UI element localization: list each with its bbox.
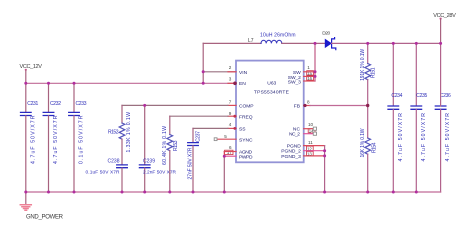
svg-text:NC_2: NC_2 bbox=[289, 132, 300, 138]
svg-text:C232: C232 bbox=[50, 101, 61, 107]
svg-text:PWPD: PWPD bbox=[239, 154, 253, 160]
pin stub COMP bbox=[228, 104, 236, 106]
svg-text:5: 5 bbox=[224, 134, 227, 139]
resistor R152 bbox=[108, 105, 132, 164]
svg-text:C233: C233 bbox=[76, 101, 87, 107]
capacitor C237 bbox=[188, 128, 202, 192]
wire SW to top rail bbox=[314, 43, 316, 81]
svg-text:R153: R153 bbox=[173, 140, 179, 151]
svg-text:L7: L7 bbox=[248, 38, 254, 44]
svg-text:27nF 50V X7R: 27nF 50V X7R bbox=[188, 147, 194, 179]
wire ground rail bbox=[26, 191, 441, 193]
wire FREQ run bbox=[170, 115, 228, 117]
svg-text:R151: R151 bbox=[371, 67, 377, 78]
svg-text:C238: C238 bbox=[108, 158, 120, 164]
pin 12 boxed bbox=[306, 146, 313, 151]
svg-text:TPS55340RTE: TPS55340RTE bbox=[254, 89, 290, 95]
svg-text:SS: SS bbox=[239, 126, 246, 132]
ground GND_POWER bbox=[20, 192, 63, 220]
wire COMP run bbox=[122, 104, 228, 106]
svg-text:U63: U63 bbox=[267, 81, 276, 87]
wire top rail between inductor and diode bbox=[282, 42, 325, 44]
pin stubs PGND bracket bbox=[304, 145, 325, 147]
svg-text:1.33K 1% 0.1W: 1.33K 1% 0.1W bbox=[126, 112, 132, 153]
node dot EN pin bbox=[233, 82, 237, 86]
svg-text:3: 3 bbox=[229, 77, 232, 82]
resistor R151 bbox=[360, 43, 377, 105]
pin 16 boxed bbox=[307, 76, 314, 81]
pin stub EN bbox=[228, 82, 236, 84]
pin stub FREQ bbox=[228, 115, 236, 117]
capacitor C231 bbox=[21, 83, 39, 192]
resistor R154 bbox=[360, 106, 378, 193]
svg-text:4.7uF 50V/X7R: 4.7uF 50V/X7R bbox=[421, 113, 427, 162]
IC U63 TPS55340RTE body bbox=[236, 61, 304, 163]
svg-text:C236: C236 bbox=[440, 93, 451, 99]
svg-text:4.7uF 50V/X7R: 4.7uF 50V/X7R bbox=[445, 113, 451, 162]
pin 17 boxed bbox=[225, 150, 233, 155]
svg-text:10: 10 bbox=[308, 122, 314, 127]
wire VIN branch bbox=[203, 71, 235, 73]
svg-text:C237: C237 bbox=[195, 131, 201, 142]
svg-text:60.4K 1% 0.1W: 60.4K 1% 0.1W bbox=[162, 126, 168, 165]
wire SS run bbox=[193, 127, 228, 129]
pin 13 boxed bbox=[306, 151, 313, 156]
svg-text:FB: FB bbox=[294, 103, 300, 109]
svg-text:D20: D20 bbox=[322, 30, 330, 36]
capacitor C232 bbox=[43, 83, 61, 192]
pin stub NC_2 with no-connect bbox=[304, 133, 314, 135]
svg-text:1: 1 bbox=[307, 65, 310, 70]
pin stub VIN bbox=[228, 71, 236, 73]
svg-text:VIN: VIN bbox=[239, 70, 248, 76]
svg-text:0.1uF 50V/X7R: 0.1uF 50V/X7R bbox=[79, 115, 85, 164]
wire PGND to ground rail bbox=[324, 146, 326, 192]
svg-text:C235: C235 bbox=[416, 93, 427, 99]
svg-text:C234: C234 bbox=[391, 93, 402, 99]
capacitor C239 bbox=[139, 105, 176, 192]
diode D20 (schottky) bbox=[325, 38, 336, 50]
power flag VCC_12V bbox=[20, 64, 43, 83]
svg-text:SW: SW bbox=[293, 70, 301, 76]
svg-text:7: 7 bbox=[229, 100, 232, 105]
capacitor C236 bbox=[435, 93, 451, 192]
capacitor C233 bbox=[69, 83, 87, 192]
svg-text:10uH 26mOhm: 10uH 26mOhm bbox=[260, 33, 296, 39]
capacitor C235 bbox=[411, 43, 428, 192]
svg-text:COMP: COMP bbox=[239, 103, 254, 109]
svg-text:PGND_2: PGND_2 bbox=[281, 149, 301, 155]
svg-text:9: 9 bbox=[229, 111, 232, 116]
svg-text:2.2nF 50V X7R: 2.2nF 50V X7R bbox=[143, 170, 177, 176]
svg-text:8: 8 bbox=[307, 100, 310, 105]
resistor R153 bbox=[162, 116, 179, 192]
svg-text:0.1uF 50V X7R: 0.1uF 50V X7R bbox=[86, 170, 121, 176]
pin numbers right bbox=[307, 65, 314, 145]
node dot FB pin bbox=[303, 104, 306, 107]
pin 14 boxed bbox=[308, 129, 315, 134]
wire top rail left of inductor bbox=[203, 42, 261, 44]
pin stub SYNC with no-connect bbox=[217, 138, 236, 140]
pin numbers left bbox=[224, 65, 232, 150]
capacitor C234 bbox=[388, 43, 404, 192]
svg-text:16K 1% 0.1W: 16K 1% 0.1W bbox=[360, 128, 366, 157]
svg-text:R154: R154 bbox=[372, 142, 378, 153]
pin stub SS bbox=[228, 127, 236, 129]
capacitor C238 bbox=[86, 158, 128, 192]
pin stub FB bbox=[304, 105, 310, 107]
power flag VCC_28V bbox=[433, 13, 456, 44]
pin stubs SW bracket bbox=[304, 71, 315, 73]
svg-text:EN: EN bbox=[239, 81, 246, 87]
pin 15 boxed bbox=[307, 71, 314, 76]
svg-text:4.7uF 50V/X7R: 4.7uF 50V/X7R bbox=[53, 115, 59, 164]
inductor L7 bbox=[261, 40, 282, 43]
svg-text:VCC_28V: VCC_28V bbox=[433, 13, 456, 19]
svg-text:NC: NC bbox=[293, 126, 301, 132]
node dot FB divider bbox=[366, 104, 369, 107]
svg-text:2: 2 bbox=[229, 65, 232, 70]
svg-text:C239: C239 bbox=[143, 158, 155, 164]
pin stub NC with no-connect bbox=[304, 128, 314, 130]
svg-text:4.7uF 50V/X7R: 4.7uF 50V/X7R bbox=[30, 115, 36, 164]
wire vertical feed to top rail bbox=[202, 43, 204, 83]
wire top rail right of diode bbox=[332, 42, 441, 44]
svg-text:SYNC: SYNC bbox=[239, 137, 253, 143]
svg-text:VCC_12V: VCC_12V bbox=[20, 64, 43, 70]
wire AGND to ground rail bbox=[223, 156, 225, 192]
svg-text:4.7uF 50V/X7R: 4.7uF 50V/X7R bbox=[398, 113, 404, 162]
svg-text:PGND_3: PGND_3 bbox=[281, 154, 301, 160]
pin stub AGND / PWPD bracket bbox=[224, 151, 236, 153]
svg-text:6: 6 bbox=[229, 145, 232, 150]
svg-text:191K 1% 0.1W: 191K 1% 0.1W bbox=[360, 49, 366, 81]
node dot SS pin bbox=[233, 127, 236, 130]
wire FB to divider bbox=[310, 105, 368, 107]
svg-text:SW_3: SW_3 bbox=[288, 80, 301, 86]
svg-text:4: 4 bbox=[229, 122, 232, 127]
svg-text:C231: C231 bbox=[27, 101, 38, 107]
svg-text:GND_POWER: GND_POWER bbox=[26, 214, 64, 220]
svg-text:PGND: PGND bbox=[287, 143, 301, 149]
svg-text:FREQ: FREQ bbox=[239, 114, 253, 120]
node dot FREQ pin bbox=[233, 115, 236, 118]
svg-text:11: 11 bbox=[308, 140, 313, 145]
svg-text:R152: R152 bbox=[108, 129, 119, 135]
wire 12V rail bbox=[26, 82, 236, 84]
